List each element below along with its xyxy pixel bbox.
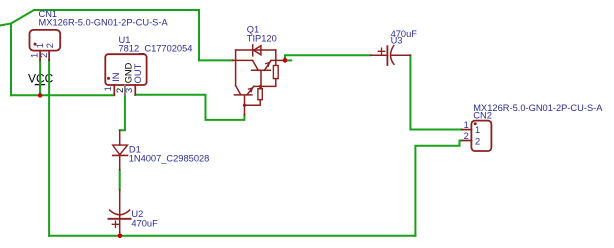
Q1 lower transistor	[234, 86, 253, 106]
connector CN1	[30, 30, 61, 51]
capacitor U3	[371, 46, 411, 65]
U2 plus sign	[112, 221, 118, 227]
U1 pin 3 stub	[134, 85, 136, 95]
svg-text:2: 2	[45, 43, 55, 48]
Q1 upper transistor	[252, 60, 271, 86]
wire vertical to Q1 base level	[198, 10, 200, 60]
wire left vertical	[10, 24, 12, 96]
U1 pin 1 stub	[113, 85, 115, 95]
junction VCC node	[38, 93, 43, 98]
wire diagonal to top rail	[11, 10, 34, 24]
Q1 lower emitter arrow	[249, 88, 253, 92]
Q1 base lead	[233, 59, 253, 61]
junction U2 ground node	[118, 234, 123, 239]
power flag VCC	[28, 72, 54, 95]
Q1 collector rail to node	[271, 59, 285, 61]
wire D1 to U2	[119, 170, 121, 190]
transistor Q1 TIP120	[233, 45, 286, 115]
svg-text:470uF: 470uF	[131, 218, 158, 228]
Q1 resistor upper bottom lead	[254, 79, 276, 87]
wire collector node stub	[287, 59, 291, 61]
svg-text:IN: IN	[111, 72, 121, 81]
svg-text:2: 2	[475, 137, 480, 147]
svg-text:TIP120: TIP120	[247, 33, 277, 43]
wire CN2 pin2 riser	[415, 141, 461, 236]
Q1 upper emitter arrow	[266, 62, 270, 66]
wire U1 pin3 to Q1 emitter	[135, 95, 244, 120]
CN2 pin 1 stub	[462, 129, 472, 131]
svg-text:U3: U3	[391, 36, 403, 46]
capacitor U2	[108, 190, 130, 236]
wire CN1 pin1 to VCC node	[39, 60, 41, 95]
Q1 resistor lower	[258, 89, 262, 100]
Q1 right vertical	[275, 50, 277, 66]
svg-text:MX126R-5.0-GN01-2P-CU-S-A: MX126R-5.0-GN01-2P-CU-S-A	[473, 103, 603, 113]
U3 plus sign	[378, 48, 384, 54]
svg-text:OUT: OUT	[133, 63, 143, 83]
wire CN1 pin2 down	[48, 60, 50, 236]
svg-text:2: 2	[39, 53, 49, 58]
Q1 emitter junction	[243, 104, 246, 107]
svg-text:U2: U2	[131, 209, 143, 219]
U1 pin 2 stub (gray)	[124, 85, 126, 95]
wire top rail	[34, 9, 199, 11]
svg-text:GND: GND	[123, 62, 133, 83]
Q1 top rail	[236, 49, 276, 51]
Q1 resistor upper	[273, 66, 278, 79]
junction Q1 collector node	[283, 58, 288, 63]
Q1 left vertical (collector branch)	[235, 50, 237, 86]
svg-text:1: 1	[464, 120, 469, 130]
Q1 internal diode	[253, 45, 261, 56]
diode D1	[113, 130, 128, 170]
Q1 emitter pin	[244, 105, 246, 115]
Q1 resistor lower leads	[245, 87, 261, 106]
wire top-left diagonal off-canvas	[0, 24, 11, 26]
CN2 pin 2 stub	[462, 140, 472, 142]
svg-text:1N4007_C2985028: 1N4007_C2985028	[129, 154, 210, 164]
svg-text:1: 1	[29, 53, 39, 58]
wire bottom rail	[49, 235, 415, 237]
svg-text:1: 1	[475, 125, 480, 135]
Q1 internal junction	[259, 85, 262, 88]
wire collector node to U3	[285, 55, 371, 60]
svg-text:MX126R-5.0-GN01-2P-CU-S-A: MX126R-5.0-GN01-2P-CU-S-A	[39, 18, 169, 28]
CN1 pin 2 stub	[48, 51, 50, 61]
svg-text:CN2: CN2	[473, 111, 492, 121]
svg-text:7812_C17702054: 7812_C17702054	[119, 44, 193, 54]
svg-text:2: 2	[464, 131, 469, 141]
connector CN2	[471, 121, 491, 151]
wire VCC horizontal to U1 pin1	[11, 94, 114, 96]
svg-text:1: 1	[103, 86, 113, 91]
wire U3 to CN2 pin1	[410, 55, 461, 129]
wire to Q1 base	[199, 59, 233, 61]
svg-text:3: 3	[124, 88, 134, 93]
svg-text:1: 1	[35, 43, 45, 48]
CN1 pin 1 stub	[39, 51, 41, 61]
wire U1 pin2 to D1	[120, 95, 125, 131]
regulator U1	[105, 54, 146, 85]
